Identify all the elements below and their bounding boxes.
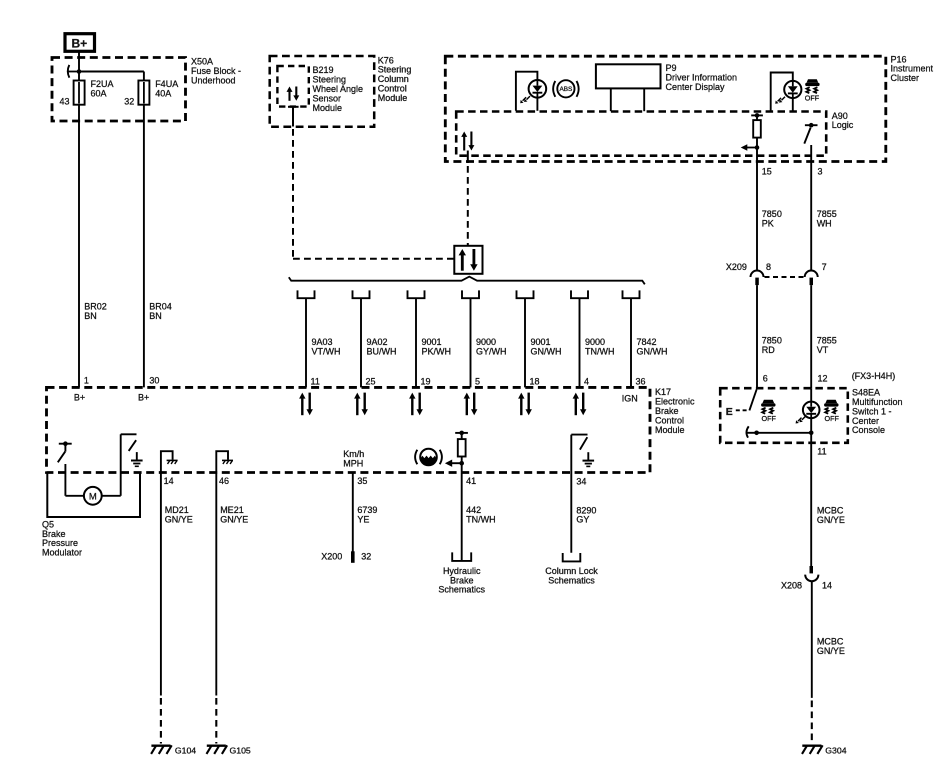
pin 46 of K17	[219, 476, 229, 486]
ground G105	[207, 745, 251, 755]
label P16	[891, 54, 934, 83]
svg-text:GN/YE: GN/YE	[817, 646, 845, 656]
svg-text:32: 32	[361, 551, 371, 561]
pin 4 of K17	[584, 376, 589, 386]
wire MD21 GN/YE	[161, 473, 193, 696]
svg-text:VT: VT	[817, 345, 829, 355]
svg-text:6739: 6739	[357, 505, 377, 515]
dashed wire to ground G105	[215, 698, 217, 744]
svg-text:41: 41	[466, 476, 476, 486]
bus tap fork wire 9A03 VT/WH	[298, 290, 341, 387]
wire 8290 GY	[571, 435, 596, 553]
svg-text:Center Display: Center Display	[666, 82, 726, 92]
svg-text:5: 5	[475, 376, 480, 386]
B+ power feed box	[65, 34, 95, 52]
display P9 Driver Information Center Display	[596, 64, 661, 111]
bus brace	[289, 277, 645, 285]
ground symbol at pin 34 branch	[583, 452, 595, 466]
pin 32 of X50A	[124, 96, 134, 106]
svg-text:32: 32	[124, 96, 134, 106]
label Q5 Brake Pressure Modulator	[42, 519, 82, 557]
svg-text:ME21: ME21	[220, 505, 244, 515]
switch pump motor feed in K17	[58, 441, 72, 462]
label A90 Logic	[832, 111, 854, 130]
label IGN at pin 36	[622, 393, 638, 403]
svg-text:WH: WH	[817, 218, 832, 228]
label K76	[378, 55, 412, 103]
wire ME21 GN/YE	[216, 473, 248, 696]
svg-text:7842: 7842	[637, 337, 657, 347]
dashed wire to ground G304	[811, 701, 813, 744]
ground tap fork at pin 14 in K17	[161, 451, 178, 473]
pin 41 of K17	[466, 476, 476, 486]
svg-text:MPH: MPH	[343, 458, 363, 468]
serial data arrows inside K17 at pin 4	[573, 393, 587, 416]
svg-text:BN: BN	[149, 311, 162, 321]
svg-text:Module: Module	[378, 93, 408, 103]
pin 8 of X209	[766, 262, 771, 272]
svg-text:F2UA: F2UA	[91, 79, 114, 89]
svg-text:BR04: BR04	[149, 302, 172, 312]
svg-text:8: 8	[766, 262, 771, 272]
svg-text:34: 34	[576, 477, 586, 487]
pin 6 of S48EA	[763, 374, 768, 384]
label X50A Fuse Block - Underhood	[191, 57, 241, 86]
svg-text:MCBC: MCBC	[817, 636, 844, 646]
pin 1 of K17	[74, 376, 89, 403]
wire 7855 WH	[811, 145, 837, 270]
wire MCBC GN/YE lower	[812, 581, 845, 698]
pin 11 of S48EA	[817, 447, 826, 457]
switch branch in A90 (lamp driver)	[804, 123, 817, 144]
svg-text:Modulator: Modulator	[42, 548, 82, 558]
svg-text:MD21: MD21	[165, 505, 189, 515]
svg-text:YE: YE	[357, 514, 369, 524]
wire 442 TN/WH	[462, 473, 496, 561]
switch traction off in S48EA	[746, 390, 758, 438]
svg-text:GN/YE: GN/YE	[220, 514, 248, 524]
pin 11 of K17	[311, 376, 320, 386]
node E label with dashed link	[726, 406, 747, 418]
svg-text:9A03: 9A03	[312, 337, 333, 347]
svg-text:X50A: X50A	[191, 57, 213, 67]
svg-text:12: 12	[818, 374, 828, 384]
component Q5 Brake Pressure Modulator box	[47, 473, 140, 517]
svg-text:Console: Console	[852, 425, 885, 435]
wire MCBC GN/YE upper	[811, 433, 845, 566]
svg-text:TN/WH: TN/WH	[466, 514, 496, 524]
switch at pin 34 in K17	[571, 435, 587, 450]
svg-text:Module: Module	[313, 103, 343, 113]
svg-text:PK/WH: PK/WH	[422, 347, 452, 357]
svg-text:BU/WH: BU/WH	[367, 347, 397, 357]
module K17 Electronic Brake Control Module dashed box	[47, 387, 651, 472]
svg-text:F4UA: F4UA	[155, 79, 178, 89]
wire switch node to LED node	[757, 432, 812, 434]
wire BR04 BN fuse F4UA to K17 pin 30	[144, 105, 172, 388]
dashed wire to ground G104	[160, 698, 162, 744]
pin 30 of K17	[138, 376, 159, 403]
svg-text:X208: X208	[781, 580, 802, 590]
pin 43 of X50A	[60, 96, 70, 106]
svg-text:442: 442	[466, 505, 481, 515]
svg-text:BN: BN	[84, 311, 97, 321]
svg-text:E: E	[726, 406, 733, 418]
connector stub arc at fuse block feed	[67, 65, 79, 78]
svg-text:OFF: OFF	[805, 94, 820, 103]
motor M of Q5	[84, 487, 102, 505]
pin 7 of X209	[822, 262, 827, 272]
svg-text:G104: G104	[175, 746, 196, 756]
svg-text:GN/YE: GN/YE	[165, 514, 193, 524]
switch module S48EA dashed box	[720, 388, 848, 443]
svg-text:X200: X200	[321, 551, 342, 561]
svg-text:OFF: OFF	[762, 414, 777, 423]
svg-text:30: 30	[149, 376, 159, 386]
svg-text:Fuse Block -: Fuse Block -	[191, 66, 241, 76]
label K17	[655, 387, 695, 435]
wire 7850 PK	[757, 138, 782, 271]
pin 36 of K17	[636, 376, 646, 386]
svg-text:Logic: Logic	[832, 120, 854, 130]
wire motor to ground switch	[102, 434, 137, 496]
pin 14 of K17	[164, 476, 174, 486]
svg-text:11: 11	[817, 447, 826, 457]
svg-text:19: 19	[421, 376, 431, 386]
svg-text:1: 1	[84, 376, 89, 386]
label P9	[666, 63, 738, 92]
bus tap fork wire 9001 GN/WH	[517, 290, 562, 387]
svg-text:35: 35	[357, 476, 367, 486]
svg-text:GN/YE: GN/YE	[817, 515, 845, 525]
wire 7850 RD	[757, 285, 782, 388]
svg-text:G304: G304	[825, 746, 846, 756]
svg-text:3: 3	[818, 167, 823, 177]
serial data arrows inside K17 at pin 18	[518, 393, 532, 416]
svg-text:7850: 7850	[762, 336, 782, 346]
brake warning indicator lamp	[516, 72, 546, 111]
traction control indicator lamp	[771, 73, 802, 112]
bus tap fork wire 9000 GY/WH	[462, 290, 507, 387]
serial data splice box	[454, 246, 482, 274]
svg-text:OFF: OFF	[825, 414, 840, 423]
svg-text:RD: RD	[762, 345, 775, 355]
svg-text:60A: 60A	[91, 89, 107, 99]
dashed serial wire A90 to splice box	[467, 166, 469, 246]
pin 34 of K17	[576, 477, 586, 487]
svg-text:TN/WH: TN/WH	[585, 347, 615, 357]
svg-text:4: 4	[584, 376, 589, 386]
svg-text:9001: 9001	[422, 337, 442, 347]
svg-text:VT/WH: VT/WH	[312, 347, 341, 357]
ground symbol internal to K17	[131, 452, 143, 466]
svg-text:GY: GY	[576, 515, 589, 525]
svg-text:11: 11	[311, 376, 320, 386]
label (FX3-H4H)	[852, 371, 896, 381]
connector X209	[726, 262, 818, 285]
svg-text:6: 6	[763, 374, 768, 384]
svg-text:14: 14	[822, 580, 832, 590]
output arrow from resistor node	[741, 144, 760, 151]
bus tap fork wire 9000 TN/WH	[571, 290, 615, 387]
wheel speed sensor symbol in K17	[415, 449, 442, 466]
resistor at pin 41 in K17	[455, 431, 468, 473]
ground G304	[802, 745, 847, 755]
pin 25 of K17	[366, 376, 376, 386]
LED indicator in S48EA	[796, 388, 820, 435]
traction off car icon left in S48EA	[761, 400, 776, 423]
svg-text:MCBC: MCBC	[817, 506, 844, 516]
svg-text:25: 25	[366, 376, 376, 386]
svg-text:15: 15	[762, 167, 772, 177]
serial data arrows inside K17 at pin 19	[409, 393, 423, 416]
resistor branch in A90 (lamp driver)	[751, 113, 763, 138]
ground G104	[151, 745, 196, 755]
off-page connector to Hydraulic Brake Schematics	[438, 552, 485, 594]
svg-text:Schematics: Schematics	[548, 576, 595, 586]
connector X208 pin 14	[781, 566, 832, 590]
svg-text:Cluster: Cluster	[891, 73, 920, 83]
svg-text:BR02: BR02	[84, 302, 107, 312]
label Km/h MPH in K17	[343, 449, 364, 468]
svg-text:Underhood: Underhood	[191, 76, 236, 86]
svg-text:Schematics: Schematics	[438, 585, 485, 595]
svg-text:9A02: 9A02	[367, 337, 388, 347]
serial data arrows in A90	[461, 132, 474, 151]
bus tap fork wire 9001 PK/WH	[408, 290, 452, 387]
wire junction to fuse F4UA	[79, 72, 144, 81]
svg-text:36: 36	[636, 376, 646, 386]
fuse block X50A dashed box	[52, 58, 186, 122]
svg-text:G105: G105	[230, 746, 251, 756]
pin 3 of P16	[818, 167, 823, 177]
wire stub B219 to K76 edge	[288, 107, 299, 127]
traction off car icon right in S48EA	[824, 400, 839, 423]
svg-text:(FX3-H4H): (FX3-H4H)	[852, 371, 896, 381]
ground tap fork at pin 46 in K17	[216, 451, 233, 473]
sensor B219 Steering Wheel Angle Sensor Module dashed box	[277, 66, 308, 107]
wire B+ into fuse block	[78, 52, 80, 72]
svg-text:43: 43	[60, 96, 70, 106]
pin 5 of K17	[475, 376, 480, 386]
module P16 Instrument Cluster dashed box	[445, 56, 886, 161]
switch pump motor ground in K17	[129, 440, 136, 451]
svg-text:B+: B+	[138, 393, 149, 403]
label S48EA Multifunction Switch 1 - Center Console	[852, 388, 903, 436]
logic block A90 dashed box	[456, 112, 826, 156]
module K76 Steering Column Control Module dashed box	[270, 56, 375, 127]
svg-text:ABS: ABS	[560, 86, 573, 93]
svg-text:M: M	[89, 491, 97, 502]
svg-text:GN/WH: GN/WH	[637, 347, 668, 357]
svg-text:B+: B+	[72, 37, 88, 51]
svg-text:7850: 7850	[762, 209, 782, 219]
pin 35 of K17	[357, 476, 367, 486]
svg-text:Module: Module	[655, 425, 685, 435]
svg-text:GY/WH: GY/WH	[476, 347, 507, 357]
arrow to wheel speed symbol	[445, 460, 462, 467]
wire BR02 BN fuse F2UA to K17 pin 1	[79, 105, 107, 388]
traction off car icon in cluster	[805, 79, 820, 102]
svg-text:X209: X209	[726, 262, 747, 272]
svg-text:GN/WH: GN/WH	[531, 347, 562, 357]
serial data arrows inside K17 at pin 11	[299, 393, 313, 416]
fuse F2UA 60A	[74, 72, 114, 105]
svg-text:B+: B+	[74, 393, 85, 403]
svg-text:9000: 9000	[585, 337, 605, 347]
svg-text:14: 14	[164, 476, 174, 486]
svg-text:7855: 7855	[817, 336, 837, 346]
bus tap fork wire 7842 GN/WH	[623, 290, 668, 387]
svg-text:9001: 9001	[531, 337, 551, 347]
fuse F4UA 40A	[138, 79, 178, 105]
bus tap fork wire 9A02 BU/WH	[353, 290, 397, 387]
pin 15 of P16	[762, 167, 772, 177]
svg-text:18: 18	[530, 376, 540, 386]
svg-text:46: 46	[219, 476, 229, 486]
svg-text:40A: 40A	[155, 89, 171, 99]
connector X200 pin 32	[321, 551, 371, 563]
wire stub A90 serial data	[467, 151, 469, 164]
svg-text:IGN: IGN	[622, 393, 638, 403]
pin 19 of K17	[421, 376, 431, 386]
pin 12 of S48EA	[818, 374, 828, 384]
svg-text:7855: 7855	[817, 209, 837, 219]
serial data arrows in B219	[287, 87, 300, 101]
svg-text:9000: 9000	[476, 337, 496, 347]
serial data arrows inside K17 at pin 25	[354, 393, 368, 416]
serial data arrows inside K17 at pin 5	[464, 393, 478, 416]
svg-text:7: 7	[822, 262, 827, 272]
wire 6739 YE	[353, 473, 378, 552]
off-page connector to Column Lock Schematics	[545, 553, 598, 586]
pin 18 of K17	[530, 376, 540, 386]
ABS indicator symbol	[553, 80, 579, 97]
label B219	[313, 65, 364, 113]
svg-text:PK: PK	[762, 218, 774, 228]
wire switch to motor	[65, 464, 84, 496]
wire 7855 VT	[811, 285, 837, 388]
node junction above fuse F2UA	[77, 69, 82, 74]
dashed serial data wire B219 to splice box	[293, 129, 454, 259]
